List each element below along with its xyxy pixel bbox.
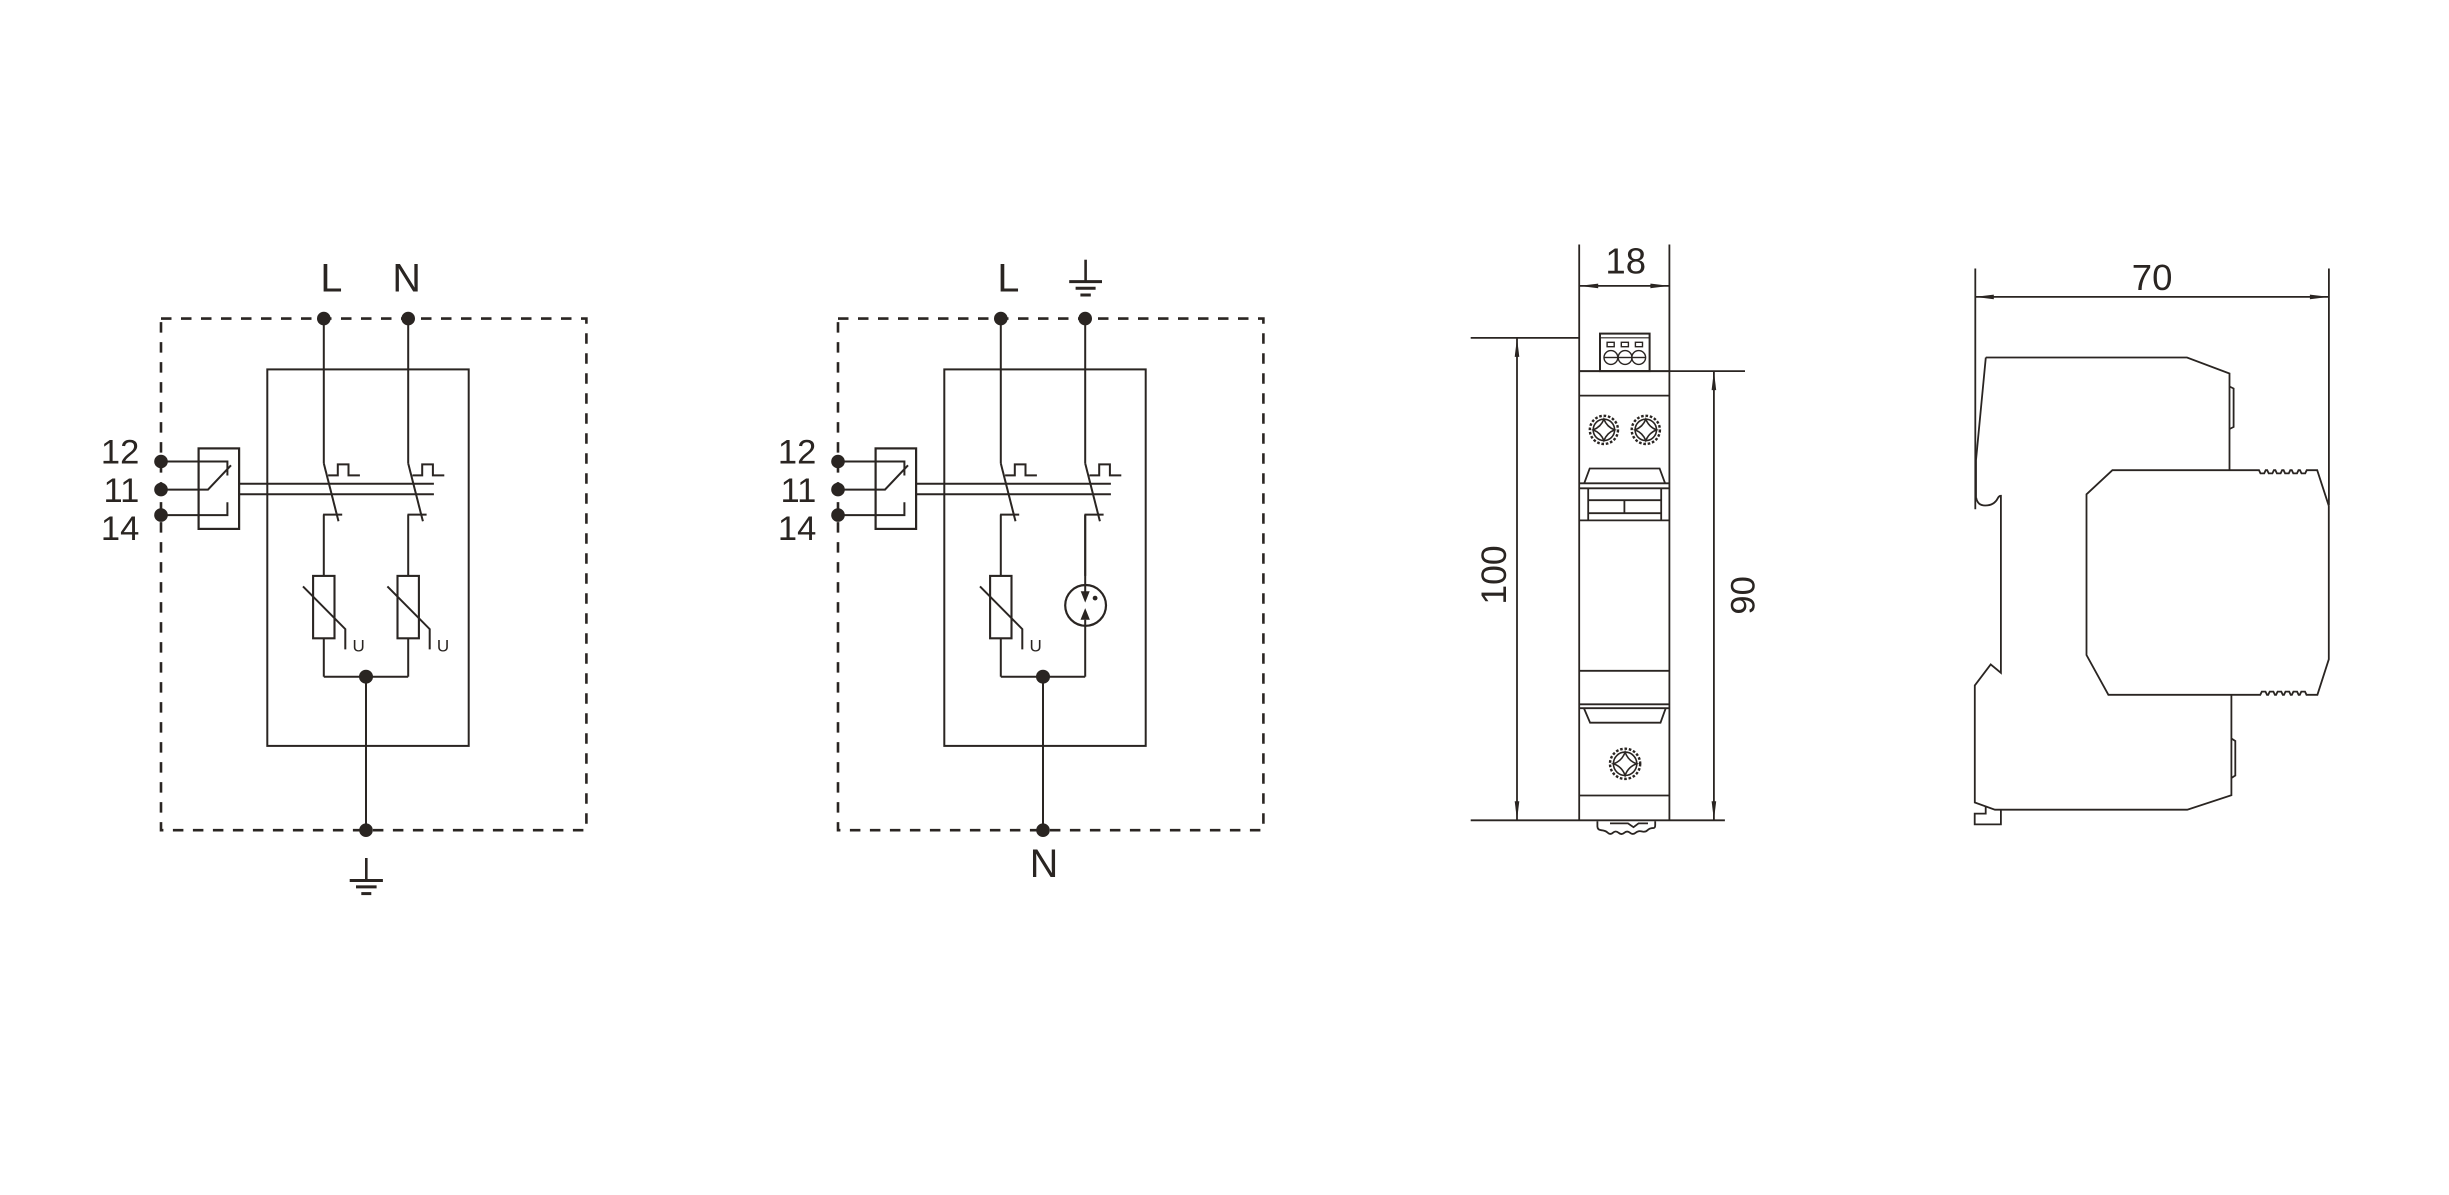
svg-text:14: 14 (778, 510, 816, 548)
svg-text:U: U (353, 637, 365, 656)
svg-text:L: L (997, 257, 1019, 301)
svg-text:U: U (437, 637, 449, 656)
svg-text:90: 90 (1725, 576, 1763, 614)
svg-text:12: 12 (101, 434, 139, 472)
svg-text:14: 14 (101, 510, 139, 548)
svg-text:L: L (320, 257, 342, 301)
svg-text:70: 70 (2132, 257, 2173, 298)
svg-text:N: N (392, 257, 421, 301)
svg-text:100: 100 (1474, 545, 1514, 604)
svg-text:18: 18 (1605, 241, 1646, 282)
svg-text:U: U (1030, 637, 1042, 656)
svg-text:11: 11 (780, 472, 816, 510)
svg-text:11: 11 (103, 472, 139, 510)
svg-text:12: 12 (778, 434, 816, 472)
svg-text:N: N (1030, 842, 1059, 886)
